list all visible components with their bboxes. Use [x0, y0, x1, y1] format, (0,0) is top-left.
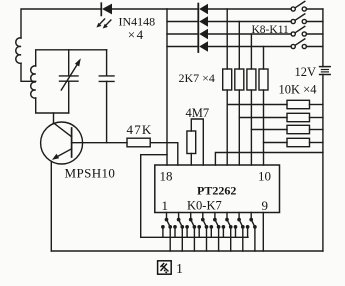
- wire tap line1 to R2: [226, 9, 228, 69]
- wire switch line 1: [208, 8, 291, 10]
- wire L2 bottom / tank bottom rail: [36, 98, 69, 113]
- diode D3: [199, 29, 208, 39]
- svg-text:18: 18: [160, 168, 173, 183]
- resistor R7 10K body: [287, 113, 310, 121]
- svg-text:47K: 47K: [127, 122, 153, 137]
- resistor R2 2K7 body: [223, 69, 232, 90]
- resistor R9 10K body: [287, 138, 310, 146]
- diode D2: [199, 16, 208, 26]
- battery B1 plates: [320, 66, 331, 68]
- IC U1 PT2262 body: [155, 165, 280, 213]
- wire 4M7 bottom to pin 16: [190, 154, 192, 166]
- wire 4M7 top jog to pin 15: [191, 119, 203, 165]
- svg-text:PT2262: PT2262: [197, 184, 236, 198]
- wire R6 right lead: [310, 104, 323, 106]
- wire TE line A to pin 14: [215, 153, 323, 166]
- svg-text:1: 1: [176, 262, 183, 277]
- switch K8: [291, 1, 323, 11]
- wire branch to R8: [251, 129, 287, 131]
- capacitor C1 plates: [60, 75, 79, 77]
- key K2: [185, 213, 196, 252]
- wire ground bus bottom: [51, 250, 323, 252]
- wire keypad common riser to Vcc: [141, 155, 167, 238]
- capacitor C1 variable: top lead: [68, 50, 70, 76]
- wire switch common down to battery: [322, 9, 324, 67]
- capacitor C2 fixed: top lead: [106, 50, 108, 76]
- resistor R3 2K7 body: [235, 69, 244, 90]
- transistor Q1 base bar: [71, 128, 73, 157]
- resistor R10 4M7 body: [187, 131, 196, 154]
- wire tap line3 to R4: [250, 34, 252, 69]
- key K7: [246, 213, 257, 252]
- switch K11: [291, 39, 323, 49]
- wire R7 right lead: [310, 117, 323, 119]
- wire keypad common bus: [141, 236, 248, 238]
- wire branch to R7: [239, 117, 287, 119]
- wire collector drop: [53, 113, 55, 123]
- wire R5 bottom to pin 10: [263, 90, 265, 165]
- wire R2 bottom to pin 13: [226, 90, 228, 165]
- resistor R1 47K body: [127, 138, 150, 147]
- svg-text:4M7: 4M7: [186, 106, 210, 120]
- transistor Q1 collector stroke: [54, 123, 72, 137]
- wire branch to R9: [264, 142, 288, 144]
- svg-text:1: 1: [162, 198, 169, 213]
- diode column cathode bar line: [197, 4, 199, 52]
- capacitor C2 plates: [99, 75, 114, 77]
- wire L1 bottom to L2 tap: [21, 63, 36, 81]
- svg-text:K8-K11: K8-K11: [252, 24, 290, 36]
- diode D1: [199, 4, 208, 14]
- wire R3 bottom to pin 12: [238, 90, 240, 165]
- inductor L2 (oscillator coil): [31, 66, 36, 98]
- capacitor C1 variable arrow: [61, 63, 78, 91]
- wire battery minus down right side: [322, 75, 324, 252]
- capacitor C1 bottom lead: [68, 81, 70, 113]
- resistor R4 2K7 body: [247, 69, 256, 90]
- capacitor C2 bottom lead to base line: [106, 81, 108, 142]
- svg-text:10K ×4: 10K ×4: [279, 82, 318, 96]
- transistor Q1 MPSH10 circle: [41, 122, 83, 164]
- key K6: [234, 213, 245, 252]
- LED D0 triangle: [102, 4, 112, 15]
- svg-text:×4: ×4: [128, 27, 145, 42]
- wire base line: [72, 142, 127, 144]
- switch K10: [291, 26, 323, 36]
- wire switch line 4: [208, 46, 291, 48]
- key K0: [161, 213, 172, 252]
- diode D4: [199, 41, 208, 51]
- key K3: [197, 213, 208, 252]
- svg-text:2K7 ×4: 2K7 ×4: [179, 71, 215, 85]
- wire switch line 3: [208, 33, 291, 35]
- wire tap line4 to R5: [263, 47, 265, 70]
- wire emitter down: [50, 161, 52, 251]
- wire Vcc vertical to pin 18: [166, 9, 168, 165]
- svg-text:9: 9: [262, 198, 269, 213]
- key K5: [222, 213, 233, 252]
- wire top rail left: [21, 9, 101, 38]
- wire R8 right lead: [310, 129, 323, 131]
- wire diode feed line 4: [167, 46, 198, 48]
- caption glyph tu (Chinese 'figure') drawn as strokes: [158, 261, 172, 274]
- transistor Q1 emitter stroke with arrow: [56, 149, 72, 158]
- key K4: [209, 213, 220, 252]
- wire R4 bottom to pin 11: [250, 90, 252, 165]
- resistor R8 10K body: [287, 125, 310, 133]
- inductor L1 (antenna coil): [16, 38, 21, 63]
- wire L2 top to tank top rail: [36, 50, 107, 66]
- svg-text:MPSH10: MPSH10: [65, 165, 116, 180]
- LED D0 emission arrows: [99, 19, 105, 25]
- resistor R6 10K body: [287, 100, 310, 108]
- wire switch line 2: [208, 21, 291, 23]
- wire pin 9 to ground bus: [262, 213, 264, 252]
- wire R9 right lead: [310, 142, 323, 144]
- LED D0 IR emitting diode: bar: [100, 3, 102, 15]
- svg-text:12V: 12V: [295, 65, 317, 79]
- wire diode feed line 2: [167, 21, 198, 23]
- svg-text:10: 10: [258, 168, 271, 183]
- wire top rail to diode column: [112, 8, 198, 10]
- svg-text:K0-K7: K0-K7: [187, 199, 222, 213]
- wire tap line2 to R3: [238, 22, 240, 70]
- wire branch to R6: [227, 104, 287, 106]
- wire 47K to pin17: [150, 143, 178, 165]
- wire diode feed line 3: [167, 33, 198, 35]
- resistor R5 2K7 body: [259, 69, 268, 90]
- key K1: [173, 213, 184, 252]
- switch K9: [291, 14, 323, 24]
